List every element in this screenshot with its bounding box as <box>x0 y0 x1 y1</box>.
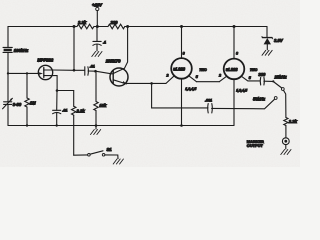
wire tap down and right <box>152 83 208 108</box>
svg-text:10k: 10k <box>99 103 107 108</box>
wire 1M bottom lead <box>26 107 28 126</box>
svg-text:7NC: 7NC <box>250 68 258 72</box>
svg-text:2N5179: 2N5179 <box>105 59 121 64</box>
resistor R3 1M <box>25 98 29 107</box>
ground S1 <box>113 159 123 164</box>
capacitor C5 .001 <box>205 99 212 113</box>
switch S2 pole <box>281 88 284 91</box>
capacitor C2 .1 bypass <box>93 41 106 46</box>
wire .01 bottom lead <box>56 113 58 126</box>
switch S1 <box>88 151 105 156</box>
capacitor C4 .01 source <box>53 109 68 114</box>
wire 2.2k to S1 <box>73 115 75 155</box>
node drain junction <box>73 69 76 72</box>
connector J1 jack <box>282 138 289 145</box>
svg-text:S1: S1 <box>107 147 113 152</box>
wire gate line <box>8 72 39 74</box>
crystal XTAL 100kHz <box>3 47 12 52</box>
capacitor C3 .01 coupling <box>85 65 95 76</box>
node emitter tap <box>150 82 153 85</box>
terminal +10V <box>96 7 99 10</box>
IC U1 uL923 <box>171 58 192 79</box>
wire emitter horizontal <box>126 82 166 84</box>
node U1 ground junction <box>180 124 183 127</box>
wire S1 left lead <box>74 154 88 156</box>
resistor R6 2.2k output <box>284 118 288 126</box>
node +10V rail junction <box>96 25 99 28</box>
wire below bypass cap <box>96 44 98 51</box>
wire pole down <box>284 90 286 117</box>
wire cap to base <box>88 70 96 72</box>
wire left vertical mid <box>7 52 9 101</box>
wire U1 to U2 <box>197 81 220 83</box>
wire top rail mid segment <box>94 26 108 28</box>
node U1 rail junction <box>180 25 183 28</box>
node U2 rail junction <box>233 25 236 28</box>
resistor R5 10k <box>94 102 98 111</box>
wire resistor to jack <box>285 126 287 138</box>
wire collector to rail <box>125 27 128 69</box>
node source junction <box>56 89 59 92</box>
node drain rail junction <box>73 25 76 28</box>
wire zener to ground <box>266 44 268 49</box>
resistor R2 220 <box>108 24 125 29</box>
wire 1M top lead <box>26 73 28 98</box>
wire main ground stub <box>95 126 97 130</box>
svg-text:330: 330 <box>258 72 266 77</box>
svg-text:50kHz: 50kHz <box>253 96 266 101</box>
svg-text:OUTPUT: OUTPUT <box>247 143 264 148</box>
wire U2 input pin 2 <box>219 76 226 82</box>
wire top rail left segment <box>8 26 77 28</box>
ground main <box>91 130 101 135</box>
wire left vertical bottom <box>7 104 9 125</box>
trimmer capacitor C1 3-30 <box>3 98 13 109</box>
wire U2 bottom pins <box>233 79 235 125</box>
wire U1 output pin 5 <box>189 76 197 82</box>
svg-text:7NC: 7NC <box>199 68 207 72</box>
wire left vertical top <box>7 27 9 48</box>
svg-text:2.2k: 2.2k <box>288 119 298 124</box>
wire U1 top pin 8 <box>181 27 183 59</box>
svg-text:2: 2 <box>218 74 221 78</box>
svg-text:uL923: uL923 <box>226 67 239 72</box>
wire +10V drop <box>96 11 98 27</box>
wire U2 top pin 8 <box>233 27 235 59</box>
svg-text:.01: .01 <box>90 65 95 69</box>
node collector rail junction <box>126 25 129 28</box>
wire top rail right segment <box>125 26 267 28</box>
ground jack <box>281 150 291 155</box>
svg-text:1,3,4,5: 1,3,4,5 <box>236 89 248 93</box>
svg-text:1,3,4,5: 1,3,4,5 <box>185 87 197 91</box>
svg-text:25kHz: 25kHz <box>274 74 288 79</box>
resistor R1 3.3k <box>77 24 94 29</box>
transistor Q1 MPF102 <box>38 65 52 79</box>
node 1M tap <box>26 72 28 74</box>
diode D1 zener 3.9V <box>262 36 284 44</box>
svg-text:2: 2 <box>166 74 169 78</box>
node 10k ground junction <box>95 124 98 127</box>
svg-text:8: 8 <box>236 52 238 56</box>
resistor R4 2.2k <box>72 106 76 115</box>
wire U1 input pin 2 <box>166 76 174 84</box>
wire source node horizontal <box>57 90 74 92</box>
svg-text:8: 8 <box>183 52 185 56</box>
wire source lead <box>52 76 57 91</box>
svg-text:+10V: +10V <box>92 2 103 7</box>
svg-text:.01: .01 <box>62 109 67 113</box>
node 1M ground <box>26 124 28 126</box>
svg-text:220: 220 <box>110 20 119 25</box>
wire 10k top lead <box>95 71 97 101</box>
wire jack to ground <box>285 145 287 149</box>
wire zener branch <box>266 27 268 38</box>
svg-text:uL923: uL923 <box>173 66 186 71</box>
wire U2 output pin 5 <box>241 76 260 81</box>
wire U1 bottom pins <box>181 79 183 126</box>
node gate line tap <box>7 72 9 74</box>
IC U2 uL923 <box>224 59 245 80</box>
wire cap to switch lower contact <box>212 99 275 109</box>
wire 330 to contact <box>264 80 273 82</box>
ground zener <box>262 50 272 55</box>
svg-text:1M: 1M <box>30 101 36 106</box>
switch S2 lower contact <box>274 97 277 100</box>
switch S2 arm <box>274 82 282 88</box>
capacitor C6 330 <box>258 72 266 85</box>
wire bypass cap branch <box>96 27 98 42</box>
node .01 ground <box>56 124 58 126</box>
svg-text:MPF102: MPF102 <box>37 58 53 63</box>
svg-text:3.9V: 3.9V <box>274 38 284 43</box>
wire bottom rail <box>8 125 234 127</box>
wire base lead <box>96 71 114 74</box>
node 25kHz contact <box>272 80 274 82</box>
wire drain to rail vertical <box>73 27 75 71</box>
svg-text:100kHz: 100kHz <box>14 48 29 53</box>
wire 2.2k top lead <box>73 91 75 107</box>
wire S1 right lead <box>105 155 118 159</box>
svg-text:.1: .1 <box>103 41 106 45</box>
wire .01 cap top lead <box>56 91 58 111</box>
wire drain horizontal <box>52 69 84 71</box>
wire 10k bottom lead <box>95 111 97 126</box>
node Q2 base junction <box>94 70 97 73</box>
transistor Q2 2N5179 <box>110 68 128 86</box>
svg-text:.001: .001 <box>205 99 212 103</box>
ground below bypass cap <box>92 52 102 57</box>
svg-text:2.2k: 2.2k <box>76 109 86 114</box>
svg-text:3-30: 3-30 <box>13 102 22 107</box>
svg-text:3.3k: 3.3k <box>78 20 87 25</box>
